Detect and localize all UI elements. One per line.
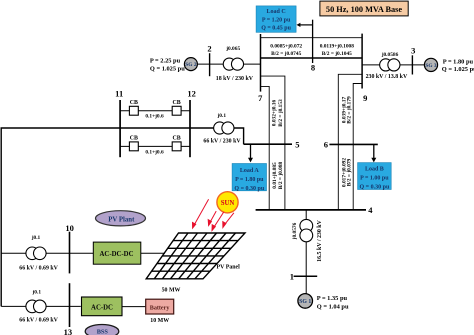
svg-text:Q = 1.025 pu: Q = 1.025 pu	[150, 65, 185, 72]
svg-text:B/2 = j0.0745: B/2 = j0.0745	[271, 51, 301, 57]
svg-text:Q = 0.45 pu: Q = 0.45 pu	[261, 26, 291, 32]
svg-text:Q = 1.04 pu: Q = 1.04 pu	[317, 303, 349, 310]
svg-text:CB: CB	[173, 100, 181, 106]
svg-text:CB: CB	[173, 136, 181, 142]
svg-text:j0.0586: j0.0586	[381, 52, 399, 58]
svg-text:11: 11	[115, 89, 123, 99]
svg-text:AC-DC-DC: AC-DC-DC	[100, 251, 134, 258]
svg-text:Load B: Load B	[365, 167, 384, 173]
svg-text:P = 1.20 pu: P = 1.20 pu	[262, 17, 291, 23]
svg-text:0.1+j0.6: 0.1+j0.6	[145, 149, 164, 155]
svg-text:4: 4	[368, 205, 373, 215]
svg-text:CB: CB	[130, 136, 138, 142]
svg-text:9: 9	[363, 93, 367, 103]
svg-text:Load C: Load C	[267, 9, 286, 15]
svg-text:16.5 kV / 230 kV: 16.5 kV / 230 kV	[317, 219, 323, 261]
svg-text:B/2 = j0.179: B/2 = j0.179	[347, 96, 353, 124]
svg-text:B/2 = j0.1045: B/2 = j0.1045	[322, 51, 352, 57]
svg-text:Battery: Battery	[150, 305, 170, 311]
svg-text:j0.1: j0.1	[31, 235, 41, 241]
svg-text:j0.0576: j0.0576	[292, 222, 298, 240]
svg-text:0.032+j0.16: 0.032+j0.16	[272, 99, 278, 126]
svg-text:7: 7	[258, 93, 263, 103]
svg-text:18 kV / 230 kV: 18 kV / 230 kV	[216, 76, 254, 82]
svg-text:B/2 = j0.079: B/2 = j0.079	[347, 158, 353, 186]
svg-text:0.01+j0.085: 0.01+j0.085	[272, 162, 278, 189]
svg-text:1: 1	[290, 271, 294, 281]
svg-text:10 MW: 10 MW	[150, 318, 169, 324]
svg-text:10: 10	[65, 223, 74, 233]
svg-text:P = 1.00 pu: P = 1.00 pu	[360, 176, 389, 182]
svg-text:P = 2.25 pu: P = 2.25 pu	[150, 58, 181, 65]
svg-text:Q = 0.30 pu: Q = 0.30 pu	[360, 185, 390, 191]
svg-text:6: 6	[324, 140, 328, 150]
svg-text:0.0085+j0.072: 0.0085+j0.072	[270, 43, 302, 49]
svg-text:PV Panel: PV Panel	[217, 265, 241, 271]
svg-text:66 kV / 0.69 kV: 66 kV / 0.69 kV	[19, 266, 58, 272]
svg-text:66 kV / 230 kV: 66 kV / 230 kV	[203, 138, 241, 144]
svg-text:P = 1.80 pu: P = 1.80 pu	[443, 59, 474, 66]
svg-text:5: 5	[295, 139, 299, 149]
svg-text:P = 1.35 pu: P = 1.35 pu	[317, 295, 348, 302]
svg-text:BSS: BSS	[97, 329, 109, 335]
svg-text:Q = 1.025 pu: Q = 1.025 pu	[442, 66, 474, 73]
svg-text:SG 3: SG 3	[425, 63, 437, 69]
svg-text:13: 13	[64, 327, 73, 335]
svg-text:SUN: SUN	[221, 200, 235, 207]
svg-text:Load A: Load A	[240, 168, 260, 174]
svg-text:SG 2: SG 2	[185, 62, 197, 68]
svg-text:j0.065: j0.065	[225, 46, 240, 52]
svg-text:j0.1: j0.1	[217, 113, 227, 119]
svg-text:j0.1: j0.1	[32, 289, 42, 295]
svg-text:0.1+j0.6: 0.1+j0.6	[145, 114, 164, 120]
svg-text:230 kV / 13.8 kV: 230 kV / 13.8 kV	[366, 74, 408, 80]
svg-text:PV Plant: PV Plant	[108, 216, 135, 223]
svg-text:50 Hz, 100 MVA Base: 50 Hz, 100 MVA Base	[326, 5, 402, 14]
svg-text:Q = 0.30 pu: Q = 0.30 pu	[234, 186, 264, 192]
svg-text:AC-DC: AC-DC	[91, 304, 113, 311]
svg-text:66 kV / 0.69 kV: 66 kV / 0.69 kV	[19, 318, 58, 324]
svg-text:50 MW: 50 MW	[162, 288, 181, 294]
svg-text:P = 1.80 pu: P = 1.80 pu	[235, 177, 264, 183]
svg-text:B/2 = j0.153: B/2 = j0.153	[278, 99, 284, 127]
svg-text:2: 2	[207, 44, 211, 54]
svg-text:0.0119+j0.1008: 0.0119+j0.1008	[320, 43, 355, 49]
svg-text:8: 8	[311, 62, 315, 72]
svg-text:CB: CB	[130, 100, 138, 106]
svg-text:B/2 = j0.088: B/2 = j0.088	[278, 161, 284, 189]
svg-text:SG 1: SG 1	[299, 299, 311, 305]
svg-text:12: 12	[187, 89, 196, 99]
svg-text:3: 3	[411, 45, 415, 55]
